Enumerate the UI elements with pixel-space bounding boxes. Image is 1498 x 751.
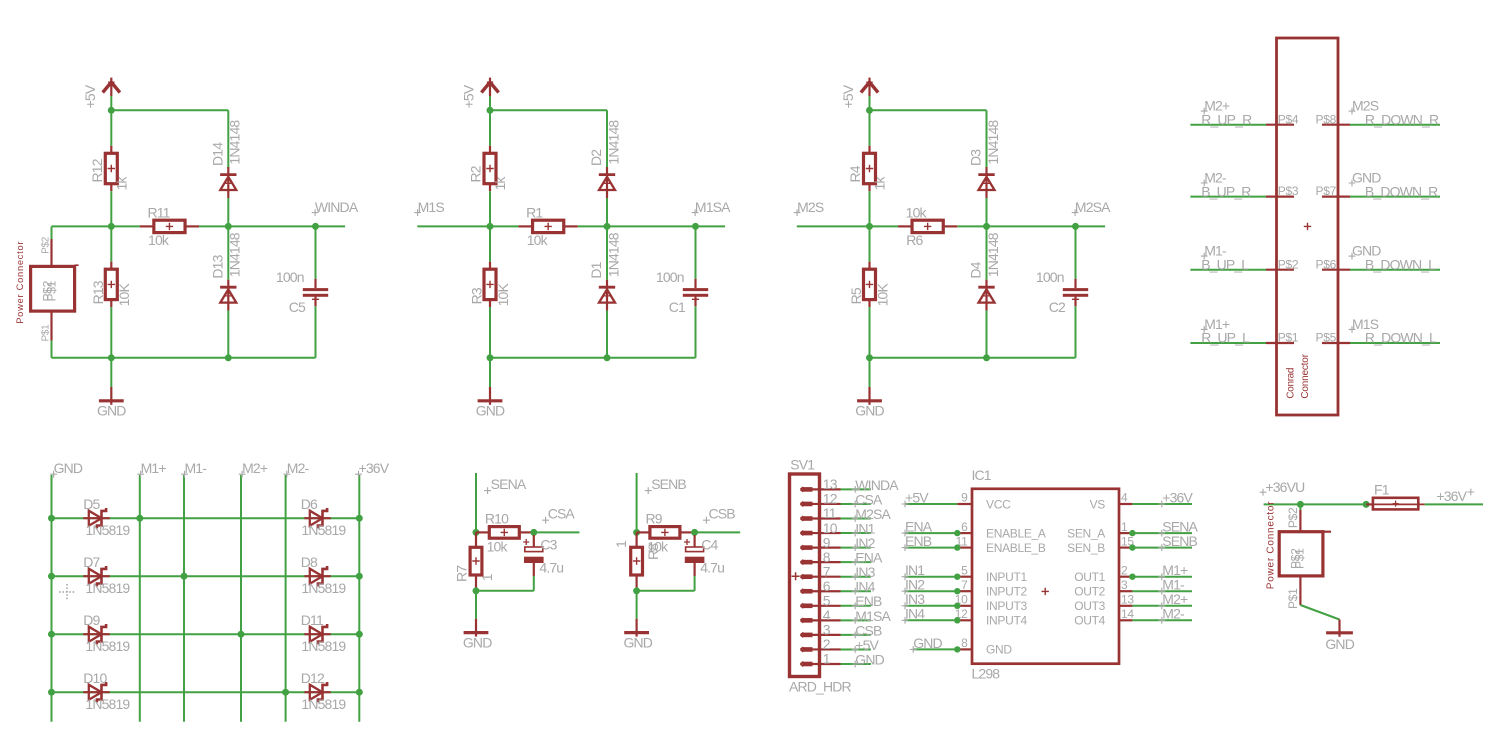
- svg-text:M1-: M1-: [1162, 577, 1185, 593]
- svg-text:1: 1: [479, 573, 495, 581]
- pin 4 pad: [801, 618, 813, 622]
- supply +5V: [840, 78, 878, 111]
- svg-text:10K: 10K: [116, 283, 132, 307]
- svg-text:R13: R13: [90, 280, 106, 304]
- svg-text:P$2: P$2: [1278, 257, 1299, 271]
- svg-text:IN2: IN2: [905, 577, 925, 593]
- wire net GND column: [51, 475, 53, 722]
- svg-text:GND: GND: [855, 651, 884, 667]
- svg-text:VS: VS: [1090, 497, 1106, 511]
- wire net CSA: [534, 531, 580, 533]
- svg-text:ENB: ENB: [905, 533, 932, 549]
- svg-text:GND: GND: [986, 643, 1012, 657]
- wire: [606, 198, 608, 226]
- pin 13 OUT3: [1074, 593, 1192, 614]
- net label M1SA: [852, 608, 892, 624]
- wire mid rail: [417, 225, 725, 227]
- svg-text:+5V: +5V: [840, 84, 856, 108]
- svg-text:2: 2: [1121, 563, 1128, 577]
- net label M1SA: [692, 199, 731, 216]
- svg-text:R_DOWN_L: R_DOWN_L: [1365, 330, 1437, 346]
- pin 13 pad: [801, 487, 813, 491]
- pin 6 ENABLE_A: [905, 520, 1046, 541]
- svg-text:Connector: Connector: [1300, 353, 1311, 398]
- svg-text:+36VU: +36VU: [1265, 479, 1305, 495]
- junction: [356, 689, 363, 696]
- svg-text:R9: R9: [646, 511, 663, 527]
- resistor R12 1k: [110, 110, 112, 146]
- svg-text:B_UP_L: B_UP_L: [1201, 256, 1249, 272]
- net label R_DOWN_R: [1365, 111, 1439, 127]
- svg-text:D7: D7: [83, 554, 100, 570]
- svg-text:CSB: CSB: [709, 506, 736, 522]
- pin 2 pad: [801, 647, 813, 651]
- wire mid rail: [797, 225, 1105, 227]
- svg-text:M2-: M2-: [287, 460, 310, 476]
- net label R_UP_R: [1201, 111, 1252, 127]
- svg-text:L298: L298: [972, 665, 1001, 681]
- net label M2+: [1158, 591, 1188, 609]
- net label ENB: [852, 593, 882, 609]
- diode D2 1N4148: [606, 168, 608, 175]
- junction: [282, 689, 289, 696]
- net label GND: [1349, 169, 1382, 186]
- svg-text:ENABLE_A: ENABLE_A: [986, 526, 1046, 540]
- junction: [356, 631, 363, 638]
- svg-text:+5V: +5V: [461, 84, 477, 108]
- wire: [986, 311, 988, 358]
- net label IN2: [852, 535, 876, 551]
- wire net M2- column: [285, 475, 287, 722]
- svg-text:GND: GND: [476, 402, 505, 418]
- net label R_DOWN_L: [1365, 330, 1437, 346]
- pin 7 pad: [801, 575, 813, 579]
- svg-text:C5: C5: [289, 299, 306, 315]
- svg-text:OUT3: OUT3: [1074, 599, 1105, 613]
- svg-text:R3: R3: [469, 287, 485, 304]
- junction: [1129, 574, 1135, 580]
- svg-text:R_UP_L: R_UP_L: [1201, 330, 1250, 346]
- header SV1 ARD_HDR box: [789, 456, 851, 694]
- resistor R2 1k: [489, 110, 491, 146]
- pin P$2 wire: [1190, 257, 1298, 271]
- svg-text:R10: R10: [485, 511, 509, 527]
- svg-text:D14: D14: [210, 142, 226, 166]
- svg-text:INPUT2: INPUT2: [986, 585, 1028, 599]
- junction: [312, 223, 319, 230]
- junction: [954, 574, 960, 580]
- resistor R9 10k: [637, 511, 695, 555]
- svg-text:R7: R7: [454, 565, 470, 582]
- cursor crosshair artifact: [59, 584, 75, 600]
- pin 8 pad: [801, 560, 813, 564]
- svg-text:B_DOWN_L: B_DOWN_L: [1365, 256, 1436, 272]
- svg-text:P$7: P$7: [1316, 184, 1337, 198]
- net label ENA: [852, 550, 883, 566]
- junction: [866, 223, 873, 230]
- pin P$5 wire: [1316, 331, 1440, 345]
- capacitor C5 100n: [315, 226, 317, 278]
- diode D3 1N4148: [986, 168, 988, 175]
- pin P$2: [40, 226, 51, 266]
- resistor R11 10k: [140, 205, 199, 249]
- wire mid rail: [52, 225, 346, 227]
- svg-text:D13: D13: [210, 254, 226, 278]
- svg-text:1N4148: 1N4148: [985, 120, 1001, 165]
- svg-text:SEN_B: SEN_B: [1067, 541, 1105, 555]
- svg-text:6: 6: [961, 520, 968, 534]
- svg-text:1N4148: 1N4148: [605, 120, 621, 165]
- capacitor C3 4.7u: [523, 535, 563, 576]
- svg-text:1N5819: 1N5819: [85, 580, 130, 596]
- pin 9 pad: [801, 545, 813, 549]
- net label M2S: [1349, 98, 1379, 115]
- net label M1+: [1158, 562, 1188, 580]
- pin 12 INPUT4: [905, 607, 1028, 628]
- svg-text:D1: D1: [588, 261, 604, 278]
- svg-text:SENB: SENB: [1162, 533, 1197, 549]
- wire net SENB: [636, 473, 638, 532]
- svg-text:INPUT4: INPUT4: [986, 614, 1028, 628]
- svg-text:4: 4: [1121, 491, 1128, 505]
- junction: [954, 544, 960, 550]
- svg-text:3: 3: [1121, 578, 1128, 592]
- junction: [473, 587, 480, 594]
- junction: [356, 515, 363, 522]
- svg-text:10k: 10k: [527, 232, 549, 248]
- svg-text:GND: GND: [463, 634, 492, 650]
- net label IN3: [852, 564, 876, 580]
- svg-text:SENA: SENA: [491, 476, 527, 492]
- wire net +5V top rail circuit R12: [111, 110, 228, 168]
- svg-text:ENABLE_B: ENABLE_B: [986, 541, 1046, 555]
- svg-text:1N4148: 1N4148: [985, 232, 1001, 277]
- svg-text:Conrad: Conrad: [1286, 368, 1297, 399]
- ground: [855, 358, 884, 419]
- net label B_UP_L: [1201, 256, 1249, 272]
- svg-text:B_DOWN_R: B_DOWN_R: [1365, 183, 1438, 199]
- diode D11 1N5819: [301, 612, 347, 654]
- net label M1S: [1349, 316, 1379, 333]
- pin 7 INPUT2: [905, 578, 1028, 599]
- pin 4 VS: [1090, 491, 1192, 512]
- wire net M1+ column: [139, 475, 141, 722]
- wire bottom rail: [870, 357, 1076, 359]
- net label IN1: [902, 562, 926, 580]
- svg-text:D9: D9: [83, 612, 100, 628]
- svg-text:GND: GND: [54, 460, 83, 476]
- pin P$2: [1286, 504, 1300, 531]
- junction: [954, 646, 960, 652]
- svg-text:R_DOWN_R: R_DOWN_R: [1365, 111, 1439, 127]
- wire: [1075, 306, 1077, 358]
- svg-text:1N4148: 1N4148: [605, 232, 621, 277]
- svg-text:VCC: VCC: [986, 497, 1011, 511]
- net label +36V: [1158, 489, 1193, 507]
- wire: [606, 311, 608, 358]
- pin 10 INPUT3: [905, 593, 1028, 614]
- wire: [986, 198, 988, 226]
- net label IN1: [852, 520, 876, 536]
- net label IN3: [902, 591, 926, 609]
- svg-text:M2+: M2+: [242, 460, 268, 476]
- svg-text:1: 1: [613, 540, 629, 548]
- svg-text:C3: C3: [540, 536, 557, 552]
- svg-text:R6: R6: [906, 232, 923, 248]
- net label M2-: [1158, 606, 1185, 624]
- junction: [238, 631, 245, 638]
- svg-text:C4: C4: [701, 536, 718, 552]
- net label IN4: [852, 579, 876, 595]
- junction: [692, 223, 699, 230]
- pin 15 SEN_B: [1067, 534, 1192, 555]
- junction: [48, 631, 55, 638]
- net label SENA: [1158, 519, 1198, 537]
- net label CSB: [703, 506, 735, 524]
- svg-text:INPUT3: INPUT3: [986, 599, 1028, 613]
- svg-text:D2: D2: [588, 149, 604, 166]
- pin 3 wire: [813, 622, 871, 638]
- svg-text:P$5: P$5: [1316, 331, 1337, 345]
- wire row D9/D11: [52, 633, 360, 635]
- wire: [227, 198, 229, 226]
- ground: [463, 591, 492, 651]
- net label +5V: [852, 637, 880, 653]
- net label ENB: [902, 533, 932, 551]
- resistor R8 value 1 labels: [613, 540, 661, 560]
- junction: [356, 573, 363, 580]
- net label M2SA: [852, 506, 892, 522]
- svg-text:D6: D6: [301, 496, 318, 512]
- supply +5V: [461, 78, 499, 111]
- pin P$6 wire: [1316, 257, 1440, 271]
- net label GND: [50, 460, 83, 477]
- svg-text:C2: C2: [1049, 299, 1066, 315]
- net label B_DOWN_R: [1365, 183, 1438, 199]
- svg-text:SV1: SV1: [790, 456, 815, 472]
- junction: [1072, 223, 1079, 230]
- diode D1 1N4148: [606, 226, 608, 279]
- svg-text:B_UP_R: B_UP_R: [1201, 183, 1251, 199]
- wire net M2+ column: [240, 475, 242, 722]
- pin 14 OUT4: [1074, 607, 1192, 628]
- junction: [633, 529, 640, 536]
- net label M2-: [283, 460, 309, 477]
- svg-text:7: 7: [961, 578, 968, 592]
- svg-text:1: 1: [823, 651, 831, 667]
- svg-text:P$2: P$2: [1286, 507, 1300, 528]
- net label M1S: [414, 199, 444, 216]
- svg-text:R_UP_R: R_UP_R: [1201, 111, 1252, 127]
- supply +5V: [82, 78, 120, 111]
- svg-text:M1+: M1+: [141, 460, 167, 476]
- svg-text:INPUT1: INPUT1: [986, 570, 1028, 584]
- diode D8 1N5819: [301, 554, 347, 596]
- junction: [983, 223, 990, 230]
- connector Conrad box: [1277, 38, 1339, 415]
- svg-text:D8: D8: [301, 554, 318, 570]
- svg-text:D12: D12: [301, 670, 325, 686]
- junction: [983, 354, 990, 361]
- svg-text:100n: 100n: [276, 269, 304, 285]
- svg-text:M2-: M2-: [1162, 606, 1185, 622]
- svg-text:R2: R2: [468, 165, 484, 182]
- svg-text:R11: R11: [147, 205, 170, 221]
- resistor R7 labels: [454, 565, 495, 582]
- net label +5V: [902, 489, 930, 507]
- svg-text:CSA: CSA: [548, 506, 576, 522]
- svg-text:OUT1: OUT1: [1074, 570, 1105, 584]
- svg-text:Power Connector: Power Connector: [1266, 501, 1277, 590]
- svg-text:10k: 10k: [148, 232, 170, 248]
- power connector X2: [1266, 501, 1332, 590]
- svg-text:D4: D4: [968, 261, 984, 278]
- pin 11 ENABLE_B: [905, 534, 1046, 555]
- net label M2SA: [1072, 199, 1111, 216]
- wire row D5/D6: [52, 517, 360, 519]
- svg-text:1N5819: 1N5819: [301, 638, 346, 654]
- fuse F1: [1366, 481, 1425, 509]
- svg-text:C1: C1: [669, 299, 686, 315]
- wire: [315, 306, 317, 358]
- junction: [487, 107, 494, 114]
- svg-text:+36V: +36V: [359, 460, 390, 476]
- wire: [476, 576, 534, 591]
- junction: [136, 515, 143, 522]
- svg-text:P$2: P$2: [41, 280, 55, 301]
- diode D6 1N5819: [301, 496, 347, 538]
- pin 3 pad: [801, 633, 813, 637]
- junction: [954, 603, 960, 609]
- net label M2-: [1201, 169, 1227, 186]
- pin P$1: [40, 311, 51, 358]
- svg-text:100n: 100n: [656, 269, 684, 285]
- pin 10 pad: [801, 531, 813, 535]
- pin 13 wire: [813, 476, 871, 492]
- pin 6 pad: [801, 589, 813, 593]
- svg-text:4.7u: 4.7u: [700, 559, 724, 575]
- svg-text:5: 5: [961, 563, 968, 577]
- net label M1-: [181, 460, 207, 477]
- net label M2S: [794, 199, 824, 216]
- wire: [695, 306, 697, 358]
- svg-text:GND: GND: [1325, 636, 1354, 652]
- junction: [691, 529, 698, 536]
- svg-text:M2SA: M2SA: [1075, 199, 1111, 215]
- svg-text:SENB: SENB: [651, 476, 686, 492]
- diode D7 1N5819: [83, 554, 130, 596]
- svg-text:1N5819: 1N5819: [85, 638, 130, 654]
- svg-text:GND: GND: [855, 402, 884, 418]
- pin 8 GND: [913, 636, 1012, 657]
- wire: [110, 191, 112, 226]
- svg-text:P$8: P$8: [1316, 112, 1337, 126]
- svg-text:+5V: +5V: [905, 489, 929, 505]
- svg-text:M2S: M2S: [797, 199, 824, 215]
- pin 1 pad: [801, 662, 813, 666]
- net label R_UP_L: [1201, 330, 1250, 346]
- resistor R5 10K: [869, 226, 871, 261]
- pin 3 OUT2: [1074, 578, 1192, 599]
- pin 9 wire: [813, 534, 871, 550]
- svg-text:14: 14: [1121, 607, 1134, 621]
- pin 5 pad: [801, 604, 813, 608]
- junction: [487, 223, 494, 230]
- junction: [530, 529, 537, 536]
- svg-text:1N5819: 1N5819: [85, 696, 130, 712]
- junction: [866, 354, 873, 361]
- pin 9 VCC: [905, 491, 1011, 512]
- net label +36V: [1436, 488, 1474, 504]
- svg-text:OUT2: OUT2: [1074, 585, 1105, 599]
- svg-text:WINDA: WINDA: [315, 199, 359, 215]
- svg-text:1k: 1k: [872, 176, 888, 191]
- wire net +5V top rail circuit R2: [490, 110, 607, 168]
- net label +36VU: [1260, 479, 1305, 496]
- svg-text:1N5819: 1N5819: [301, 522, 346, 538]
- resistor R1 10k: [519, 205, 578, 249]
- svg-text:8: 8: [961, 636, 968, 650]
- wire: [869, 307, 871, 358]
- pin 1 wire: [813, 651, 871, 667]
- net label CSA: [852, 491, 883, 507]
- svg-text:R8: R8: [645, 543, 661, 560]
- resistor R13 10K: [110, 226, 112, 261]
- svg-text:GND: GND: [624, 634, 653, 650]
- svg-text:GND: GND: [97, 402, 126, 418]
- net label M2+: [239, 460, 268, 477]
- junction: [954, 530, 960, 536]
- capacitor C2 100n: [1075, 226, 1077, 278]
- ground: [624, 591, 653, 651]
- junction: [473, 529, 480, 536]
- svg-text:SEN_A: SEN_A: [1067, 526, 1105, 540]
- net label SENA: [484, 476, 527, 494]
- svg-text:P$2: P$2: [40, 236, 51, 254]
- svg-text:+5V: +5V: [82, 84, 98, 108]
- pin P$7 wire: [1316, 184, 1440, 198]
- net label ENA: [902, 519, 933, 537]
- junction: [48, 573, 55, 580]
- svg-text:D5: D5: [83, 496, 100, 512]
- svg-text:P$4: P$4: [1278, 112, 1299, 126]
- junction: [633, 587, 640, 594]
- diode D9 1N5819: [83, 612, 130, 654]
- wire net +36V: [1425, 503, 1483, 505]
- wire: [869, 191, 871, 226]
- svg-text:F1: F1: [1374, 481, 1390, 497]
- junction: [866, 107, 873, 114]
- svg-text:GND: GND: [913, 635, 942, 651]
- pin 11 pad: [801, 516, 813, 520]
- svg-text:P$2: P$2: [1288, 548, 1302, 569]
- pin 6 wire: [813, 578, 871, 594]
- net label IN2: [902, 577, 926, 595]
- net label IN4: [902, 606, 926, 624]
- junction: [487, 354, 494, 361]
- svg-text:OUT4: OUT4: [1074, 614, 1105, 628]
- svg-text:IC1: IC1: [972, 467, 992, 483]
- pin P$4 wire: [1190, 112, 1298, 126]
- pin 5 wire: [813, 593, 871, 609]
- svg-text:+36V: +36V: [1436, 488, 1467, 504]
- net label B_DOWN_L: [1365, 256, 1436, 272]
- pin 4 wire: [813, 607, 871, 623]
- pin 1 SEN_A: [1067, 520, 1192, 541]
- svg-text:10K: 10K: [495, 283, 511, 307]
- svg-text:1N5819: 1N5819: [85, 522, 130, 538]
- net label M1-: [1158, 577, 1185, 595]
